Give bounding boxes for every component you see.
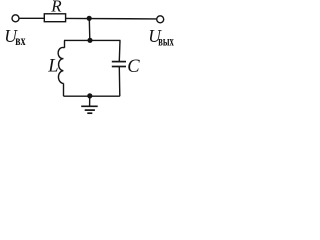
wire: rail down to capacitor <box>118 40 121 61</box>
resistor R (body) <box>44 14 65 22</box>
wire: rail down to inductor <box>64 40 66 47</box>
ground (bar 1) <box>81 105 98 107</box>
wire: capacitor to bottom rail <box>118 67 121 97</box>
node: top junction <box>87 16 92 21</box>
capacitor C (bottom plate) <box>112 66 126 68</box>
svg-text:L: L <box>47 57 58 77</box>
output terminal (open circle, right) <box>157 16 164 23</box>
wire: resistor to output terminal (through node) <box>66 17 157 20</box>
wire: bottom rail <box>64 95 120 97</box>
inductor L (coil, 3 loops) <box>58 47 64 83</box>
input terminal (open circle, left) <box>12 15 19 22</box>
capacitor C (top plate) <box>112 61 126 63</box>
ground (bar 2) <box>85 109 95 111</box>
wire: top node down to tank rail <box>88 18 91 40</box>
wire: bottom node to ground <box>89 96 91 106</box>
wire: inductor to bottom rail <box>63 83 65 96</box>
svg-text:вх: вх <box>15 34 25 49</box>
svg-text:R: R <box>50 0 62 16</box>
wire: tank top rail <box>64 39 121 41</box>
node: tank rail junction <box>87 38 92 43</box>
ground (bar 3) <box>87 112 92 114</box>
wire: input terminal to resistor <box>19 17 44 19</box>
node: bottom rail junction <box>87 93 92 98</box>
svg-text:вых: вых <box>158 34 174 49</box>
svg-text:C: C <box>127 57 140 77</box>
